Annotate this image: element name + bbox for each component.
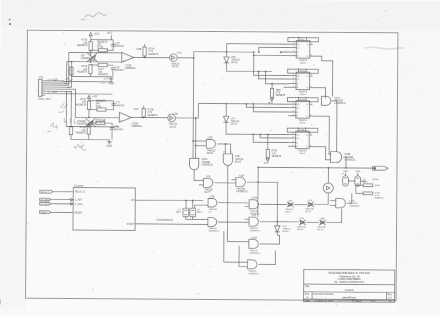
svg-text:(?): (?) [209,211,212,213]
wire U5B in2 [199,184,204,186]
input flag CO_ADJ [40,198,51,201]
wire J3 pin4 bus [45,67,71,87]
wire U2B in2 [245,218,249,220]
wire flag RESET [51,211,73,213]
svg-text:RECK..T1: RECK..T1 [41,192,51,194]
wire R19 bottom [90,74,111,77]
gate U2D [247,260,257,269]
wire caps rail [348,180,355,182]
flip-flop U?2A body [296,101,310,119]
gate U5B [203,178,213,187]
wire input stage2 [85,116,119,118]
svg-text:/MP2: /MP2 [362,181,368,183]
xbuf U11B [307,202,314,207]
svg-text:<—-12V: <—-12V [47,90,57,94]
wire U5B out right [214,182,235,184]
flip-flop U?A feedback bar [288,38,319,42]
wire U10D out [347,193,352,203]
resistor R12 far left stage2 [69,127,72,135]
wire FF4 pin2 [260,134,288,138]
wire FF2 pin2 from rail [259,72,289,80]
svg-text:4E39ET8: 4E39ET8 [77,44,88,47]
wire U3A out branch down [257,182,259,216]
svg-text:U?B: U?B [288,200,293,202]
flip-flop U?1A left pins [289,75,296,77]
flip-flop U?A body [296,41,310,59]
wire xbuf row to circle [314,193,328,205]
svg-text:C_ACQ: C_ACQ [75,203,83,206]
flip-flop U?1A right pins [310,75,313,77]
wire J3 pin3 bus [45,52,89,85]
svg-text:LM280(CL): LM280(CL) [209,231,220,233]
svg-text:4E39ET8: 4E39ET8 [77,71,88,74]
svg-text:RECK..T1: RECK..T1 [75,192,86,194]
gate U2B [249,217,259,226]
wire U3A in1 from above [231,179,235,181]
buffer U7A circle [170,54,178,62]
svg-text:-: - [120,113,121,117]
wire crystal right up [192,201,194,209]
svg-text:/MP2: /MP2 [197,212,203,214]
wire FF1 Q out right [312,56,332,97]
flip-flop U?1A body [296,72,310,90]
wire R15 bottom [71,75,90,77]
resistor R19 vert lower [89,65,92,74]
wire U10B out down to arrow rail [343,157,346,168]
wire -12V from J3 [45,93,112,95]
svg-text:VCC: VCC [264,163,269,165]
svg-text:Size: Size [305,293,310,296]
svg-text:<—+12V: <—+12V [48,77,59,81]
wire lower input stage2 [66,126,119,128]
svg-text:10: 10 [223,152,225,154]
wire stage1 out to buffer [145,57,170,59]
svg-text:POS_ADJ: POS_ADJ [38,97,51,101]
svg-text:1M28021L: 1M28021L [131,125,143,128]
svg-text:U4C: U4C [133,107,138,111]
svg-text:Date:: Date: [305,300,311,303]
input flag RECK [40,190,53,193]
wire U8D in1 from crystal loop [193,218,208,220]
wire FF4 pin3 [253,134,288,142]
resistor R2A [143,47,146,56]
wire U8C out [218,202,249,204]
resistor R22 pullup [270,88,273,97]
svg-text:9: 9 [231,152,232,154]
connector J3 [38,79,42,96]
wire U10A out [331,101,337,152]
wire D9 bottom rail to FF4 [226,133,288,135]
svg-text:100/10V: 100/10V [114,128,123,131]
svg-text:RESET: RESET [75,212,83,214]
wire bus B to U8B in2 [196,145,207,147]
svg-text:U?B: U?B [300,218,305,220]
svg-text:GND: GND [107,145,113,148]
flip-flop U?2A right pins [309,103,312,105]
svg-text:UP: UP [131,200,135,202]
wire top rail stage2 [89,100,114,102]
flip-flop U?A right pins [310,43,313,45]
power flag stage2 [87,95,90,98]
wire U8B out [217,143,230,145]
and gate U6B down [223,154,232,166]
wire op-amp out stage1 [134,56,145,58]
svg-text:Counter: Counter [74,184,83,188]
svg-text:U?F: U?F [308,200,313,202]
wire R11 bottom [88,110,90,118]
svg-text:GND: GND [109,82,115,85]
wire FF2 pin4 [284,86,289,88]
svg-text:U?B: U?B [208,137,213,140]
svg-text:M?5E: M?5E [372,179,378,181]
wire diode D8 bottom rail [226,70,272,72]
svg-text:LM280(CL): LM280(CL) [201,164,213,166]
svg-text:C_AD?: C_AD? [75,199,83,202]
svg-text:DIL14: DIL14 [300,63,307,65]
xbuf U15B [319,220,326,225]
wire FF3 Q out right [312,116,331,154]
wire FF2 Q out right [312,88,325,99]
nand gate U8B top [206,140,215,149]
wire J3 pin5 bus [45,89,86,117]
date divider [352,299,354,302]
wire crystal bottom loop [186,217,193,220]
svg-text:Document Number: Document Number [314,293,334,296]
flip-flop U?A left pins [289,43,296,45]
resistor R17 lower [98,63,107,66]
title block line3 [304,298,395,301]
power flag +12V stage1 [89,33,92,36]
trimmer diode D1 stage1 [87,53,97,61]
wire bus vertical A [192,58,195,158]
wire FF1 pin4 [281,51,289,53]
wire input stage1 [89,52,122,54]
svg-text:4E39ET8: 4E39ET8 [148,53,159,56]
svg-text:DIL14: DIL14 [231,62,238,64]
wire U5A out [194,170,203,181]
svg-text:100/10V: 100/10V [115,45,124,48]
wire U2A out to xbuf row [260,203,287,205]
svg-text:INGENIEURBUERO R. PATZAK: INGENIEURBUERO R. PATZAK [328,271,370,275]
counter block U9 [73,188,135,231]
capacitor C5 [111,44,115,46]
wire R12 bottom [71,135,89,140]
svg-text:LM280(CL): LM280(CL) [249,253,260,255]
wire into U2C from U6B [227,241,249,243]
svg-text:U?A: U?A [252,214,257,217]
and gate U10B [331,152,342,163]
wire counter UP out [135,199,203,201]
svg-text:4E39ET8: 4E39ET8 [96,122,106,124]
svg-text:LM280(CL): LM280(CL) [334,103,346,105]
ground stage2 [107,140,112,144]
svg-text:U?B: U?B [210,196,215,198]
svg-text:U?B: U?B [173,113,178,116]
and gate U10D [336,198,346,208]
svg-text:DIL14: DIL14 [300,123,307,125]
wire R18 right [107,42,113,50]
wire FF4 Q out right [312,147,331,160]
svg-text:A10?: A10? [239,175,245,178]
wire U6B out down [226,165,229,241]
wire xbuf row2 mid [306,221,319,223]
wire top to diode D8 [194,52,227,58]
svg-text:DIL14: DIL14 [207,153,214,155]
title block line2 [304,291,395,294]
resistor R11 [87,101,90,110]
svg-text:Sheet: Sheet [355,300,362,303]
svg-text:RESET: RESET [41,212,48,214]
wire U3A out to rail [247,167,258,182]
wire counter START out [135,223,208,226]
wire R16 to node [90,51,92,56]
wire resistors left join [356,184,363,186]
wire flag CO_ADJ [51,199,71,201]
svg-text:/MP2: /MP2 [176,212,182,214]
resistor R5F [363,192,373,195]
trimmer diode stage2 [85,118,95,126]
wire buffer2 out [175,117,195,119]
wire branch to FF1 pin1 [227,44,289,53]
svg-text:4E39ET8: 4E39ET8 [272,156,282,158]
offpage arrow out [372,166,388,170]
wire flag RECK [53,191,73,193]
svg-text:4E39ET8: 4E39ET8 [98,73,109,76]
input flag RESET [40,211,51,214]
svg-text:DIL14: DIL14 [172,65,179,68]
resistor R43 [96,121,105,124]
op-amp U4C [119,112,131,122]
svg-text:+12V: +12V [93,33,99,36]
resistor R09 [266,149,269,157]
nand U8C [208,198,217,207]
wire flag CO_ACQ [51,203,71,205]
svg-text:U10A: U10A [202,158,208,161]
svg-text:-: - [123,53,124,57]
title block outer [304,269,395,302]
svg-text:100/10V: 100/10V [115,69,124,72]
resistor R18 [98,49,107,52]
wire FF3 pin3 [253,104,288,112]
wire top rail stage1 [91,39,113,41]
wire into U2C in2 [239,246,248,267]
flip-flop U?3A right pins [309,134,312,136]
wire stage2 out to buffer [144,117,168,119]
svg-text:LM280211: LM280211 [250,230,261,232]
svg-text:Control: Control [345,288,354,292]
svg-text:LM280(CL): LM280(CL) [248,273,259,275]
svg-text:4E39ET8: 4E39ET8 [76,132,87,135]
circle buffer U14 [323,183,333,193]
wire R09 from FF4 rail [267,134,269,149]
svg-text:4E39ET8: 4E39ET8 [76,103,87,106]
svg-text:Drehstellantung: Drehstellantung [157,218,174,221]
capacitor C6 lower [111,68,115,70]
svg-text:+12V: +12V [92,95,98,98]
resistor R41 [97,108,106,111]
svg-text:START: START [127,223,135,226]
wire branch FF1 pin3 [227,51,254,53]
svg-text:4E39ET8: 4E39ET8 [147,114,158,117]
resistor R5E [363,184,373,187]
svg-text:DIL?T: DIL?T [204,192,211,194]
wire U2B out to xbuf row2 [260,221,299,223]
wire FF2 pin3 [266,72,289,84]
wire U2A in2 [245,205,249,207]
power stub R09 [267,158,269,159]
wire R18 left [91,49,99,51]
wire R17 ends [90,64,98,66]
wire buffer out to bus node [177,57,194,59]
xbuf U15A [299,220,306,225]
wire U8C in2 from crystal [195,205,208,208]
wire long bottom into U2D [224,261,248,263]
svg-text:VCC: VCC [107,32,112,35]
wire op-amp out stage2 [131,116,143,118]
svg-text:U8A: U8A [320,217,325,220]
gate U2C [249,239,259,248]
wire branch FF1 pin2 [259,47,289,52]
capacitor C7 [111,104,115,106]
svg-text:DIL14: DIL14 [170,126,177,129]
wire circle to rail [327,168,329,183]
wire to diode D9 [225,104,227,117]
svg-text:Tel.: (0043) 07675/03170-0: Tel.: (0043) 07675/03170-0 [334,281,365,284]
wire stage2 node up to FF3 [196,103,289,118]
svg-text:4E39ET8: 4E39ET8 [275,95,285,97]
flip-flop U?3A left pins [288,134,295,136]
wire FF2 pin1 [254,55,289,75]
wire bus vertical B [195,118,197,158]
capacitor C8 [110,128,114,130]
wire rail to R22 [271,84,273,89]
and gate U10A right [321,96,331,105]
svg-text:LM280(CL): LM280(CL) [236,191,248,193]
wire U10D in1 [330,200,336,202]
svg-text:R?41: R?41 [96,105,102,108]
svg-text:DIL14: DIL14 [283,231,290,233]
input flag CO_ACQ [40,202,51,205]
wire FF3 pin2 [246,104,288,108]
wire bus A to U8B in1 [193,140,206,142]
gate column U3A [236,177,246,186]
svg-text:U?AP: U?AP [252,197,258,200]
svg-text:U?A: U?A [177,52,182,55]
wire lower input stage1 [89,61,122,63]
wire row2 up to U10D [326,209,342,223]
svg-text:CO_ADJ: CO_ADJ [41,198,49,201]
resistor R2B [142,109,145,118]
resistor R14 lower stage2 [87,125,90,134]
oscillator crystal block [183,208,189,217]
drawing frame border [26,30,398,301]
flip-flop U?3A body [296,131,310,149]
svg-text:6 of: 6 of [371,300,375,303]
wire long arrow rail [258,166,372,169]
svg-text:DIL14: DIL14 [235,162,242,164]
svg-text:DIL14: DIL14 [317,229,324,231]
wire xbuf row mid [294,204,308,206]
svg-text:October 18, 2001: October 18, 2001 [315,300,334,303]
svg-text:DIL14: DIL14 [297,229,304,231]
diode D11 mid-bottom [276,222,278,226]
svg-text:J?3: J?3 [39,75,44,79]
flip-flop U?2A feedback bar [287,98,318,102]
diode D9 [223,116,228,122]
svg-text:DIL1?: DIL1? [285,211,292,213]
svg-text:R?1B: R?1B [97,46,103,49]
nand U8D [208,218,217,227]
power stub R22 [271,97,273,98]
resistor R15 far left [70,67,73,75]
diode D8 [226,52,228,57]
flip-flop U?1A feedback bar [288,69,319,73]
svg-text:1M28021L: 1M28021L [125,67,137,70]
svg-text:GND: GND [355,171,360,173]
xbuf U11A [287,202,294,207]
svg-text:100/10V: 100/10V [116,104,125,107]
svg-text:LM280(CL): LM280(CL) [349,206,360,208]
svg-text:DIL1?: DIL1? [305,211,312,213]
svg-text:LM348/P: LM348/P [81,57,91,60]
capacitor CB1 electrolytic [343,176,349,186]
svg-text:DIL14: DIL14 [300,94,307,96]
svg-text:DIL14: DIL14 [299,153,306,155]
svg-text:U?A: U?A [206,176,211,179]
svg-text:W39ET8: W39ET8 [375,197,384,199]
and gate U5A down [190,158,199,170]
wire +12V rail stage1 [90,36,92,41]
resistor R16 [89,42,92,51]
wire UP to crystal [185,201,187,209]
wire U2D out [259,250,276,264]
wire R14 bottom [89,134,110,139]
wire U2C out [260,235,280,244]
title block line1 [304,283,395,286]
wire U10D in2 [330,204,336,206]
wire +12V from J3 [45,81,113,82]
wire J3 pin2 bus [45,62,89,84]
gate U2A [249,200,259,209]
wire J3 pin6 bus [45,91,72,126]
svg-text:470R: 470R [375,185,381,187]
wire U8D out [218,221,249,223]
title vertical divider rev [386,292,388,299]
wire branch to D11 [258,182,278,222]
svg-text:CO_ACQ: CO_ACQ [41,203,50,206]
svg-text:DIL14: DIL14 [231,124,238,126]
buffer U7B circle [168,114,176,122]
svg-text:R?23AD: R?23AD [77,120,86,123]
wire stubs to U6B gate [224,144,226,154]
flip-flop U?3A feedback bar [287,128,318,132]
title vertical divider size [311,292,313,299]
ground stage1 [111,76,113,78]
flip-flop U?2A left pins [288,103,295,105]
capacitor CB2 electrolytic [355,176,361,186]
op-amp U4B [122,52,134,62]
svg-text:Title: Title [305,285,310,288]
svg-text:U?AT: U?AT [251,237,257,240]
svg-text:U4B: U4B [136,47,141,51]
